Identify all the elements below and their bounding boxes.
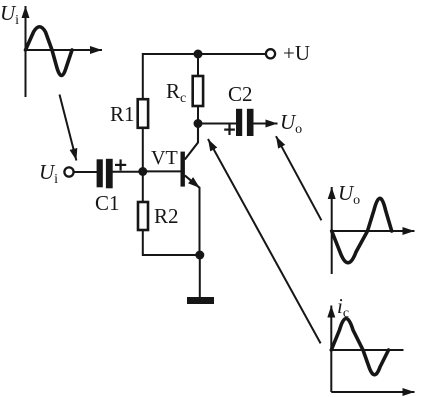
collector current waveform graph ic: vertical axis (330, 306, 332, 393)
node: base junction dot (138, 167, 147, 176)
wire: base node down to R2 (142, 172, 144, 203)
wire with arrow: C2 to output Uo (253, 123, 278, 125)
wire: emitter down (199, 187, 201, 255)
input terminal node (open circle) (64, 167, 73, 176)
capacitor C2 polarity plus sign (224, 124, 235, 135)
collector current waveform graph ic: zero line (331, 349, 403, 351)
resistor R2 (138, 202, 148, 230)
ground symbol (187, 297, 214, 304)
svg-text:C1: C1 (95, 191, 120, 215)
svg-text:ic: ic (337, 294, 349, 321)
arrow from ic waveform to collector node (208, 139, 321, 343)
svg-text:Uo: Uo (280, 110, 302, 137)
node: emitter/ground junction dot (195, 251, 204, 260)
input waveform graph Ui: vertical axis (25, 6, 27, 97)
input waveform graph Ui: horizontal axis (26, 49, 103, 51)
wire: base node to transistor base (143, 170, 181, 172)
node: collector junction dot (194, 119, 203, 128)
svg-text:+U: +U (283, 41, 310, 65)
output waveform graph Uo: horizontal axis (332, 230, 415, 232)
resistor Rc (193, 76, 203, 106)
wire: C1 to base node (112, 171, 143, 173)
transistor VT collector lead (185, 124, 198, 160)
output waveform Uo sine curve (inverted) (332, 198, 392, 263)
svg-text:VT: VT (151, 147, 178, 169)
input waveform Ui sine curve (26, 27, 73, 76)
collector current waveform graph ic: horizontal axis (331, 391, 414, 393)
svg-text:R2: R2 (154, 204, 179, 228)
svg-text:Rc: Rc (166, 79, 186, 106)
svg-text:R1: R1 (110, 102, 135, 126)
arrow from Uo waveform to output terminal (276, 136, 321, 220)
transistor VT base bar (181, 152, 185, 187)
resistor R1 (138, 99, 148, 128)
capacitor C2 plates (236, 109, 254, 136)
wire: rail to Rc (197, 54, 199, 76)
capacitor C1 plates (97, 159, 113, 189)
wire: collector node to C2 (198, 123, 237, 125)
arrow from input waveform to Ui terminal (60, 95, 77, 161)
svg-text:Uo: Uo (338, 181, 360, 208)
wire: input terminal to C1 (74, 171, 97, 173)
svg-text:C2: C2 (228, 82, 253, 106)
node: top rail junction dot (194, 50, 203, 59)
svg-text:Ui: Ui (0, 1, 19, 28)
svg-text:Ui: Ui (39, 160, 58, 187)
wire: R1 bottom to base node (142, 128, 144, 172)
capacitor C1 polarity plus sign (115, 159, 126, 170)
transistor VT emitter lead with arrow (185, 175, 200, 188)
wire: Rc bottom to collector node (197, 106, 199, 124)
+U supply terminal (open circle) (266, 49, 275, 58)
wire: top rail corner down to R1 (143, 54, 266, 99)
collector current waveform ic sine curve (331, 319, 388, 375)
wire: junction down to ground (199, 255, 201, 297)
output waveform graph Uo: vertical axis (331, 187, 333, 274)
wire: R2 bottom to ground rail (143, 230, 200, 255)
